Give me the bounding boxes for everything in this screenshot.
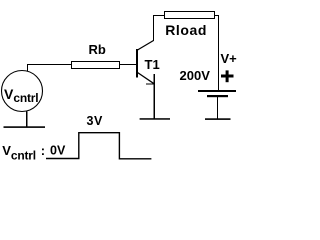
resistor Rload <box>165 12 215 19</box>
wire (source top to Rb) <box>28 65 72 72</box>
ground (battery) <box>205 118 231 120</box>
wire (emitter to ground) <box>153 74 155 119</box>
wire (Rload to V+ rail) <box>215 16 219 91</box>
waveform Vcntrl pulse <box>46 133 151 159</box>
svg-text:T1: T1 <box>145 57 160 72</box>
transistor T1 collector lead <box>138 41 154 51</box>
transistor T1 emitter lead <box>138 73 155 84</box>
svg-text:Vcntrl: Vcntrl <box>4 86 38 105</box>
svg-text:0V: 0V <box>50 144 66 158</box>
wire (Rb to base) <box>119 64 136 66</box>
svg-text:Rb: Rb <box>89 42 106 57</box>
resistor Rb <box>72 62 120 69</box>
svg-text:Vcntrl: Vcntrl <box>2 143 36 163</box>
svg-text:3V: 3V <box>87 114 103 128</box>
svg-text:200V: 200V <box>180 68 211 83</box>
battery plus sign <box>221 75 234 78</box>
svg-text:V+: V+ <box>221 51 238 66</box>
svg-text:Rload: Rload <box>165 22 207 38</box>
wire (source bottom to ground) <box>26 112 28 127</box>
battery V+ top plate <box>198 90 236 92</box>
transistor T1 emitter arrow tick <box>146 83 155 85</box>
transistor T1 base bar <box>136 49 138 78</box>
wire (collector to top rail) <box>154 16 165 42</box>
battery bottom plate <box>207 95 228 97</box>
voltage source Vcntrl <box>2 71 43 112</box>
svg-text::: : <box>41 143 45 158</box>
wire (battery to ground) <box>217 97 219 119</box>
ground (emitter) <box>140 118 170 120</box>
ground (source) <box>4 126 46 128</box>
